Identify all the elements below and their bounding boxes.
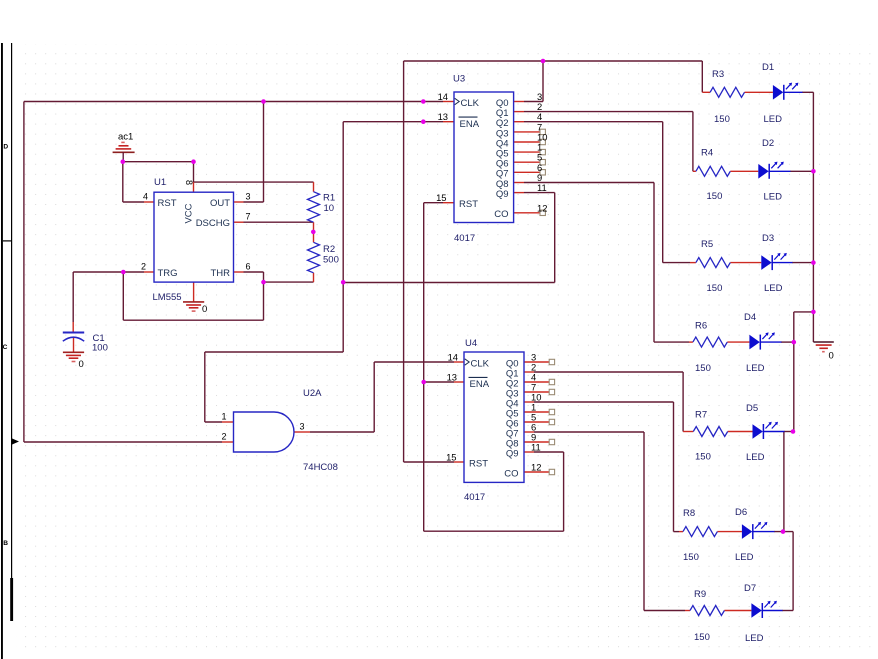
resistor R6 (693, 337, 727, 347)
wire 555 THR (244, 271, 264, 273)
junction rail ground (811, 310, 816, 315)
wire U3 ENA vertical down (342, 122, 344, 352)
svg-text:150: 150 (694, 632, 710, 643)
svg-text:D4: D4 (744, 312, 756, 323)
svg-text:RST: RST (158, 198, 177, 209)
LED diode D6 (742, 522, 775, 539)
svg-text:R3: R3 (712, 69, 724, 80)
svg-text:CLK: CLK (471, 359, 490, 370)
svg-text:14: 14 (448, 352, 458, 363)
pin stub U4 Q1 (524, 371, 534, 373)
wire U4 Q9 riser (563, 452, 565, 531)
frame arrow marker (11, 438, 19, 445)
resistor R2 (308, 242, 320, 272)
wire rail branch down to D5 (793, 312, 795, 432)
svg-text:R1: R1 (323, 193, 335, 204)
wire D1 to right rail (802, 91, 813, 93)
wire U3 Q9 to ENA net (343, 282, 555, 284)
svg-text:4: 4 (143, 192, 148, 202)
unconnected terminal U4 pin row 11 (549, 469, 554, 474)
wire D4 to rail (781, 341, 794, 343)
pin stub 555 THR (234, 271, 244, 273)
svg-text:R9: R9 (694, 589, 706, 600)
pin stub U4 Q4 (524, 401, 534, 403)
svg-text:R6: R6 (695, 321, 707, 332)
pin stub 555 DSCHG (234, 221, 244, 223)
svg-text:D5: D5 (746, 403, 758, 414)
svg-text:D: D (3, 143, 8, 150)
pin stub U4 Q7 (524, 431, 534, 433)
pin stub U3 Q2 (514, 121, 524, 123)
wire left rail down to U2A pin2 (23, 102, 25, 443)
lead R5 to D3 (730, 262, 761, 264)
svg-text:13: 13 (447, 372, 457, 383)
svg-text:DSCHG: DSCHG (196, 218, 230, 229)
wire VCC riser (193, 162, 195, 182)
svg-text:D6: D6 (735, 507, 747, 518)
wire D3 to right rail (792, 262, 813, 264)
pin lead C1 top (72, 322, 74, 332)
svg-text:1: 1 (221, 412, 226, 422)
wire to U2A pin 2 (24, 441, 222, 443)
LED diode D3 (761, 253, 792, 270)
svg-text:D7: D7 (744, 583, 756, 594)
svg-text:4017: 4017 (464, 492, 485, 503)
svg-text:2: 2 (141, 262, 146, 272)
wire D5 to rail (784, 431, 793, 433)
frame tick (3, 240, 11, 241)
svg-text:3: 3 (300, 422, 305, 432)
wire U3 Q9 drop (554, 193, 556, 283)
svg-text:LED: LED (746, 363, 765, 374)
wire to U4 CLK pin (374, 361, 454, 363)
svg-text:LM555: LM555 (153, 292, 182, 303)
pin stub U3 unconnected row 6 (514, 161, 540, 163)
source ac1 ground symbol (113, 142, 135, 161)
pin lead R3 left (702, 91, 710, 93)
svg-text:7: 7 (246, 212, 251, 222)
lead R4 to D2 (730, 170, 758, 172)
wire to R9 (644, 610, 685, 612)
lead R6 to D4 (727, 341, 749, 343)
wire ac1 to VCC (123, 161, 194, 163)
wire to R5 (663, 262, 690, 264)
resistor R4 (696, 166, 730, 176)
wire 555 DSCHG to R1/R2 (244, 221, 314, 223)
svg-text:U2A: U2A (303, 388, 322, 399)
svg-text:0: 0 (79, 359, 84, 370)
wire U4 Q1 drop to R7 (682, 372, 684, 432)
wire TRG loop up to THR net (263, 282, 265, 320)
junction ENA net (341, 280, 346, 285)
pin lead R7 left (683, 431, 693, 433)
svg-text:150: 150 (707, 283, 723, 294)
U4 clock triangle (465, 359, 470, 365)
svg-text:11: 11 (537, 182, 547, 193)
wire to 555 RST pin (123, 201, 144, 203)
pin lead C1 bottom (73, 338, 75, 352)
pin stub 555 TRG (144, 271, 154, 273)
junction ac1 net (121, 159, 126, 164)
svg-text:4017: 4017 (454, 233, 475, 244)
wire D6 rail down to D7 (792, 532, 794, 611)
svg-text:15: 15 (436, 192, 446, 203)
svg-text:LED: LED (735, 552, 754, 563)
wire U4 Q4 drop to R8 (673, 402, 675, 532)
wire U4 Q9 out (534, 451, 564, 453)
junction R1/R2 (311, 230, 316, 235)
wire to U3 ENA pin (343, 121, 443, 123)
pin stub U2A pin2 (222, 441, 234, 443)
wire U4 Q1 out (534, 371, 683, 373)
svg-text:12: 12 (531, 462, 541, 473)
LED diode D2 (758, 162, 790, 179)
svg-text:R5: R5 (701, 239, 713, 250)
pin stub U4 RST (454, 461, 464, 463)
pin stub 555 OUT (234, 201, 244, 203)
pin stub U3 unconnected row 7 (514, 171, 540, 173)
svg-text:14: 14 (438, 91, 448, 102)
pin stub U2A pin1 (222, 421, 234, 423)
wire U3 Q9 out (524, 192, 555, 194)
junction OUT/CLK net (261, 99, 266, 104)
counter U3 4017 box (454, 92, 514, 223)
svg-text:10: 10 (324, 203, 335, 214)
svg-text:13: 13 (438, 111, 448, 122)
wire VCC to R1 top (194, 181, 314, 183)
U3 clock triangle (455, 98, 460, 104)
wire U3 Q2 out (524, 121, 663, 123)
wire U3 Q0 out (524, 101, 543, 103)
wire to U4 ENA pin (424, 381, 454, 383)
lead R9 to D7 (724, 610, 751, 612)
svg-text:150: 150 (695, 452, 711, 463)
wire to R8 (674, 531, 680, 533)
pin stub U3 CLK (443, 101, 454, 103)
wire top rail drop to R3 row (701, 61, 703, 92)
wire U2A pin1 drop (204, 352, 206, 422)
pin stub U3 unconnected row 3 (514, 131, 540, 133)
junction top rail Q0 (541, 59, 546, 64)
svg-text:2: 2 (221, 432, 226, 442)
svg-text:D2: D2 (762, 138, 774, 149)
wire U3 Q2 drop to R5 (662, 122, 664, 263)
svg-text:OUT: OUT (210, 198, 230, 209)
pin lead R5 left (690, 262, 696, 264)
pin stub U4 unconnected row 8 (524, 441, 549, 443)
svg-text:0: 0 (829, 351, 834, 362)
svg-text:ENA: ENA (470, 379, 490, 390)
svg-text:CO: CO (494, 209, 508, 220)
wire U2A output riser (373, 362, 375, 432)
frame border line outer (1, 43, 3, 659)
pin lead R6 left (689, 341, 693, 343)
svg-text:LED: LED (746, 452, 765, 463)
pin lead R8 left (679, 531, 683, 533)
pin stub U3 Q1 (514, 111, 524, 113)
unconnected terminal U4 pin row 6 (549, 419, 554, 424)
wire TRG down to C1 (72, 272, 74, 322)
capacitor C1 (63, 332, 84, 334)
op-amp U1 LM555 timer box (154, 192, 234, 282)
unconnected terminal U3 pin row 4 (540, 139, 545, 144)
svg-text:U4: U4 (465, 338, 477, 349)
svg-text:R8: R8 (683, 508, 695, 519)
wire D6 to corner (774, 531, 793, 533)
resistor R9 (690, 606, 724, 616)
svg-text:150: 150 (695, 363, 711, 374)
pin stub U3 unconnected row 11 (514, 212, 540, 214)
svg-text:LED: LED (764, 114, 783, 125)
wire to U4 RST pin (404, 461, 454, 463)
wire 555 OUT (244, 201, 264, 203)
wire D5 rail down to D6 (783, 432, 785, 532)
svg-text:Q9: Q9 (496, 189, 509, 200)
svg-text:R7: R7 (695, 410, 707, 421)
wire THR to R2 bottom (264, 281, 314, 283)
pin stub U3 RST (443, 202, 454, 204)
unconnected terminal U3 pin row 5 (540, 149, 545, 154)
unconnected terminal U3 pin row 7 (540, 170, 545, 175)
pin stub U4 unconnected row 5 (524, 411, 549, 413)
unconnected terminal U4 pin row 3 (549, 389, 554, 394)
wire right rail down to ground (812, 92, 814, 342)
svg-text:12: 12 (537, 202, 547, 213)
resistor R3 (710, 87, 744, 97)
unconnected terminal U4 pin row 8 (549, 439, 554, 444)
pin stub U3 unconnected row 5 (514, 151, 540, 153)
lead R8 to D6 (717, 531, 742, 533)
junction CLK wire (421, 99, 426, 104)
wire U3 Q8 out (524, 182, 654, 184)
LED diode D5 (753, 422, 785, 439)
wire 555 TRG (73, 271, 144, 273)
wire TRG loop across (123, 319, 263, 321)
pin lead R4 left (693, 170, 696, 172)
pin stub U3 ENA (443, 121, 454, 123)
wire bottom run to U4 Q9 (424, 530, 564, 532)
svg-text:LED: LED (764, 283, 783, 294)
junction THR/R2 (261, 280, 266, 285)
resistor R8 (683, 527, 717, 537)
pin stub 555 VCC (193, 182, 195, 192)
svg-text:D1: D1 (762, 62, 774, 73)
wire TRG loop down (122, 272, 124, 320)
pin stub U4 CLK (454, 361, 464, 363)
svg-text:74HC08: 74HC08 (303, 462, 338, 473)
resistor R7 (693, 427, 727, 437)
junction rail D5 (791, 429, 796, 434)
junction TRG (121, 270, 126, 275)
unconnected terminal U4 pin row 0 (549, 359, 554, 364)
pin lead R2 bottom (313, 273, 315, 282)
svg-text:CLK: CLK (461, 98, 480, 109)
svg-text:R4: R4 (701, 148, 713, 159)
svg-text:CO: CO (504, 468, 518, 479)
svg-text:RST: RST (469, 458, 488, 469)
wire U3 RST vertical down (423, 203, 425, 532)
resistor R5 (696, 258, 730, 268)
svg-text:11: 11 (531, 442, 541, 453)
wire U3 Q8 drop to R6 (653, 183, 655, 343)
wire to U3 RST pin (424, 202, 443, 204)
svg-text:B: B (3, 540, 8, 547)
wire 555 OUT to U3 CLK net horizontal (24, 101, 443, 103)
unconnected terminal U4 pin row 2 (549, 379, 554, 384)
lead R7 to D5 (728, 431, 753, 433)
svg-text:ac1: ac1 (118, 132, 133, 143)
pin stub U3 Q9 (514, 192, 524, 194)
pin lead R1-R2 join (313, 222, 315, 242)
svg-text:U1: U1 (154, 177, 166, 188)
svg-text:8: 8 (184, 180, 194, 185)
wire U3 Q1 drop to R4 (692, 112, 694, 172)
svg-text:15: 15 (446, 452, 456, 463)
svg-text:ENA: ENA (460, 119, 480, 130)
pin lead R1 top (313, 182, 315, 192)
wire top rail to R3 (404, 60, 703, 62)
pin stub 555 GND (193, 282, 195, 302)
junction ENA wire (421, 119, 426, 124)
unconnected terminal U3 pin row 6 (540, 160, 545, 165)
svg-text:150: 150 (714, 114, 730, 125)
svg-text:TRG: TRG (158, 268, 178, 279)
counter U4 4017 box (464, 352, 524, 482)
svg-text:U3: U3 (453, 74, 465, 85)
wire ac1 down to RST 555 (122, 162, 124, 202)
svg-text:C: C (3, 344, 8, 351)
ground right rail (813, 342, 833, 352)
wire U4 Q4 out (534, 401, 674, 403)
svg-text:RST: RST (459, 199, 478, 210)
wire D2 to right rail (790, 170, 813, 172)
frame border line inner (11, 43, 12, 578)
pin stub 555 RST (144, 201, 154, 203)
svg-text:6: 6 (246, 262, 251, 272)
junction U4 ENA (421, 380, 426, 385)
svg-text:150: 150 (707, 191, 723, 202)
svg-text:THR: THR (210, 268, 230, 279)
svg-text:3: 3 (246, 192, 251, 202)
pin stub U2A pin3 (294, 431, 310, 433)
pin stub U4 unconnected row 0 (524, 361, 549, 363)
unconnected terminal U3 pin row 11 (540, 210, 545, 215)
wire 555 OUT riser to CLK net (263, 102, 265, 203)
pin stub U4 unconnected row 6 (524, 421, 549, 423)
svg-text:LED: LED (745, 633, 764, 644)
wire D7 to corner (782, 610, 793, 612)
pin stub U3 Q8 (514, 182, 524, 184)
pin stub U4 ENA (454, 381, 464, 383)
svg-text:D3: D3 (762, 233, 774, 244)
resistor R1 (308, 192, 320, 223)
ground below C1 (63, 352, 84, 361)
pin stub U3 Q0 (514, 101, 524, 103)
junction rail D6 (781, 529, 786, 534)
pin stub U3 unconnected row 4 (514, 141, 540, 143)
wire U4 Q7 drop to R9 (643, 432, 645, 611)
pin stub U4 unconnected row 3 (524, 391, 549, 393)
svg-text:LED: LED (764, 192, 783, 203)
wire rail branch left (794, 311, 814, 313)
junction rail D2 (811, 169, 816, 174)
svg-text:150: 150 (683, 552, 699, 563)
AND gate U2A 74HC08 (234, 412, 295, 452)
svg-text:100: 100 (92, 343, 108, 354)
wire U2A output (310, 431, 374, 433)
svg-text:0: 0 (202, 304, 207, 315)
wire to U2A pin 1 (205, 421, 222, 423)
svg-text:500: 500 (323, 255, 339, 266)
LED diode D7 (751, 601, 782, 618)
lead R3 to D1 (745, 91, 773, 93)
svg-text:R2: R2 (323, 244, 335, 255)
pin stub U4 Q9 (524, 451, 534, 453)
LED diode D4 (749, 332, 781, 349)
wire to R6 (654, 341, 689, 343)
wire top rail left drop to U4 RST (403, 61, 405, 462)
pin lead R9 left (685, 610, 690, 612)
wire U3 Q0 riser to top rail (542, 61, 544, 102)
wire toward U2A pin1 (205, 351, 343, 353)
LED diode D1 (773, 83, 803, 100)
wire U4 Q7 out (534, 431, 644, 433)
wire THR drop (263, 272, 265, 282)
junction rail D3 (811, 260, 816, 265)
unconnected terminal U4 pin row 5 (549, 409, 554, 414)
junction VCC (191, 159, 196, 164)
junction rail D4 (792, 340, 797, 345)
svg-text:VCC: VCC (184, 203, 195, 223)
unconnected terminal U3 pin row 3 (540, 129, 545, 134)
ground below 555 (183, 302, 204, 311)
pin stub U4 unconnected row 11 (524, 471, 549, 473)
wire U3 Q1 out (524, 111, 693, 113)
pin stub U4 unconnected row 2 (524, 381, 549, 383)
svg-text:Q9: Q9 (506, 448, 519, 459)
